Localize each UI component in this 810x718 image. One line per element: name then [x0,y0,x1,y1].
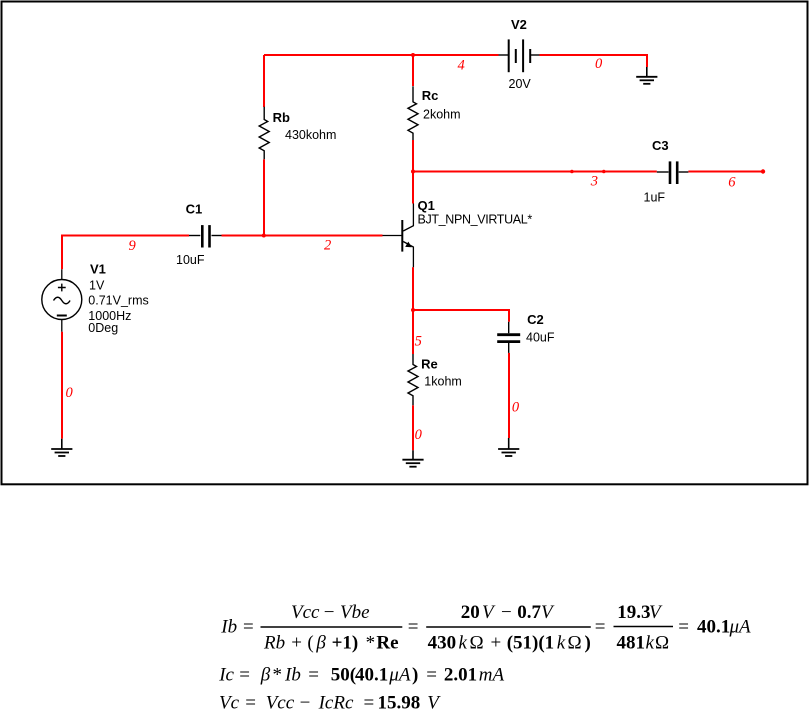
svg-text:20V: 20V [509,77,532,91]
svg-text:−: − [501,602,512,623]
node junction emitter [411,308,415,312]
svg-text:50(: 50( [331,665,356,686]
wire V1 bottom to ground [61,332,63,439]
svg-text:Vc: Vc [219,693,240,714]
capacitor C3 [657,161,689,184]
wire C2 bottom to ground [508,353,510,438]
svg-text:+: + [291,633,302,654]
svg-text:20: 20 [461,602,480,623]
svg-text:C3: C3 [652,138,669,153]
svg-text:Re: Re [376,633,398,654]
svg-text:Re: Re [421,357,438,372]
svg-text:Ic: Ic [218,665,234,686]
svg-text:V2: V2 [511,17,527,32]
node 9 [129,238,137,254]
svg-text:Ib: Ib [220,617,237,638]
svg-text:*: * [273,665,283,686]
svg-text:Ω: Ω [470,633,484,654]
wire emitter junction to C2 [413,310,509,322]
svg-text:40uF: 40uF [526,331,555,345]
wire Rc top vertical [412,55,414,86]
svg-text:): ) [585,633,591,654]
svg-text:6: 6 [728,175,736,191]
svg-text:Q1: Q1 [418,198,435,213]
svg-text:1V: 1V [89,279,105,293]
resistor Rb [259,107,269,160]
label Rb [273,110,290,125]
svg-text:19.3: 19.3 [617,602,650,623]
label C3 [652,138,669,153]
svg-text:μA: μA [388,665,411,686]
value 0Deg [88,321,118,335]
svg-text:1kohm: 1kohm [424,374,462,388]
svg-text:μA: μA [729,617,752,638]
svg-text:−: − [300,693,311,714]
svg-text:0: 0 [595,56,603,72]
svg-text:2kohm: 2kohm [423,108,461,122]
label V2 [511,17,527,32]
svg-text:1uF: 1uF [644,190,666,204]
svg-text:=: = [245,693,256,714]
node 3 [590,174,598,190]
svg-text:IcRc: IcRc [318,693,354,714]
wire Rb top vertical [263,55,265,107]
value 430kohm [285,128,336,142]
resistor Re [408,354,418,405]
node terminal 6 endpoint dot [761,169,765,173]
svg-text:V1: V1 [90,261,106,276]
svg-text:0: 0 [512,400,520,416]
svg-text:+1): +1) [332,633,359,654]
svg-text:Ib: Ib [284,665,301,686]
svg-text:3: 3 [590,174,598,190]
svg-text:β: β [315,633,326,654]
wire C3 right to terminal [688,171,763,173]
battery V2 [499,39,540,72]
ground (Re) [402,450,423,466]
value 10uF [176,253,205,267]
svg-text:4: 4 [458,58,465,74]
node 4 [458,58,465,74]
wire Re bottom to ground [412,405,414,450]
svg-text:2.01: 2.01 [444,665,477,686]
node junction top at Rc branch [411,53,415,57]
node 0 (V1) [66,385,74,401]
node dot 3a on output wire [570,170,574,174]
svg-text:BJT_NPN_VIRTUAL*: BJT_NPN_VIRTUAL* [418,212,533,226]
node 6 [728,175,736,191]
value 2kohm [423,108,461,122]
ground (V1) [51,439,72,456]
node dot 3b on output wire [602,170,606,174]
wire base node to Q1 base [264,235,383,237]
svg-text:0.71V_rms: 0.71V_rms [88,293,148,307]
wire emitter junction down to Re [412,310,414,354]
svg-text:=: = [595,617,606,638]
svg-text:(51)(1: (51)(1 [507,633,554,654]
wire top bus from Rb top to battery [264,54,499,56]
transistor Q1 [383,204,414,268]
value BJT_NPN_VIRTUAL* [418,212,533,226]
node 5 [415,334,422,350]
svg-text:0: 0 [66,385,74,401]
wire Rb bottom to base node [263,159,265,235]
svg-text:=: = [239,665,250,686]
label C1 [186,202,203,217]
value 1V [89,279,105,293]
source V1 [42,269,82,331]
capacitor C1 [189,225,222,247]
node junction collector/output [411,170,415,174]
svg-text:C1: C1 [186,202,203,217]
svg-text:+: + [491,633,502,654]
node 0 (battery right) [595,56,603,72]
node junction base [262,234,266,238]
node 2 [324,237,331,253]
value 1000Hz [88,309,131,323]
svg-text:Rb: Rb [263,633,285,654]
equation line 1: Ib formula [220,602,751,654]
svg-text:=: = [243,617,254,638]
svg-text:Vcc: Vcc [266,693,295,714]
label Rc [422,88,439,103]
svg-text:k: k [557,633,566,654]
value 40uF [526,331,555,345]
svg-text:=: = [308,665,319,686]
svg-text:Rc: Rc [422,88,439,103]
svg-text:2: 2 [324,237,331,253]
svg-text:10uF: 10uF [176,253,205,267]
wire emitter down to junction [412,267,414,310]
svg-text:40.1: 40.1 [697,617,730,638]
svg-text:5: 5 [415,334,422,350]
capacitor C2 [497,322,520,353]
svg-text:C2: C2 [527,312,544,327]
svg-text:mA: mA [479,665,505,686]
svg-text:*: * [366,633,376,654]
svg-text:9: 9 [129,238,137,254]
svg-text:k: k [459,633,468,654]
svg-text:=: = [408,617,419,638]
svg-text:0Deg: 0Deg [88,321,118,335]
svg-text:Vcc: Vcc [291,602,320,623]
value 20V [509,77,532,91]
svg-text:Vbe: Vbe [340,602,370,623]
wire V1 top to C1 [62,236,189,270]
label Q1 [418,198,435,213]
svg-text:−: − [324,602,335,623]
equation line 3: Vc formula [219,693,441,714]
svg-text:=: = [364,693,375,714]
node 0 (Re) [415,427,423,443]
svg-text:Rb: Rb [273,110,290,125]
svg-text:(: ( [307,633,313,654]
node 0 (C2) [512,400,520,416]
svg-text:): ) [412,665,418,686]
label C2 [527,312,544,327]
wire C1 right to base node [222,235,265,237]
ground (C2) [498,438,519,456]
ground (battery) [636,67,657,84]
svg-text:0.7: 0.7 [517,602,541,623]
border frame [2,2,808,485]
svg-text:k: k [646,633,655,654]
svg-text:481: 481 [617,633,646,654]
svg-text:15.98: 15.98 [378,693,421,714]
label V1 [90,261,106,276]
value 0.71V_rms [88,293,148,307]
wire battery right to ground corner [540,55,648,67]
svg-text:=: = [678,617,689,638]
resistor Rc [408,86,418,140]
svg-text:40.1: 40.1 [355,665,388,686]
svg-text:Ω: Ω [568,633,582,654]
wire Rc bottom to collector [412,140,414,204]
svg-text:0: 0 [415,427,423,443]
value 1uF [644,190,666,204]
equation line 2: Ic formula [218,665,504,686]
svg-text:430: 430 [428,633,457,654]
label Re [421,357,438,372]
svg-text:β: β [260,665,271,686]
wire output horizontal to C3 [413,171,657,173]
value 1kohm [424,374,462,388]
svg-text:Ω: Ω [655,633,669,654]
svg-text:430kohm: 430kohm [285,128,336,142]
svg-text:=: = [426,665,437,686]
